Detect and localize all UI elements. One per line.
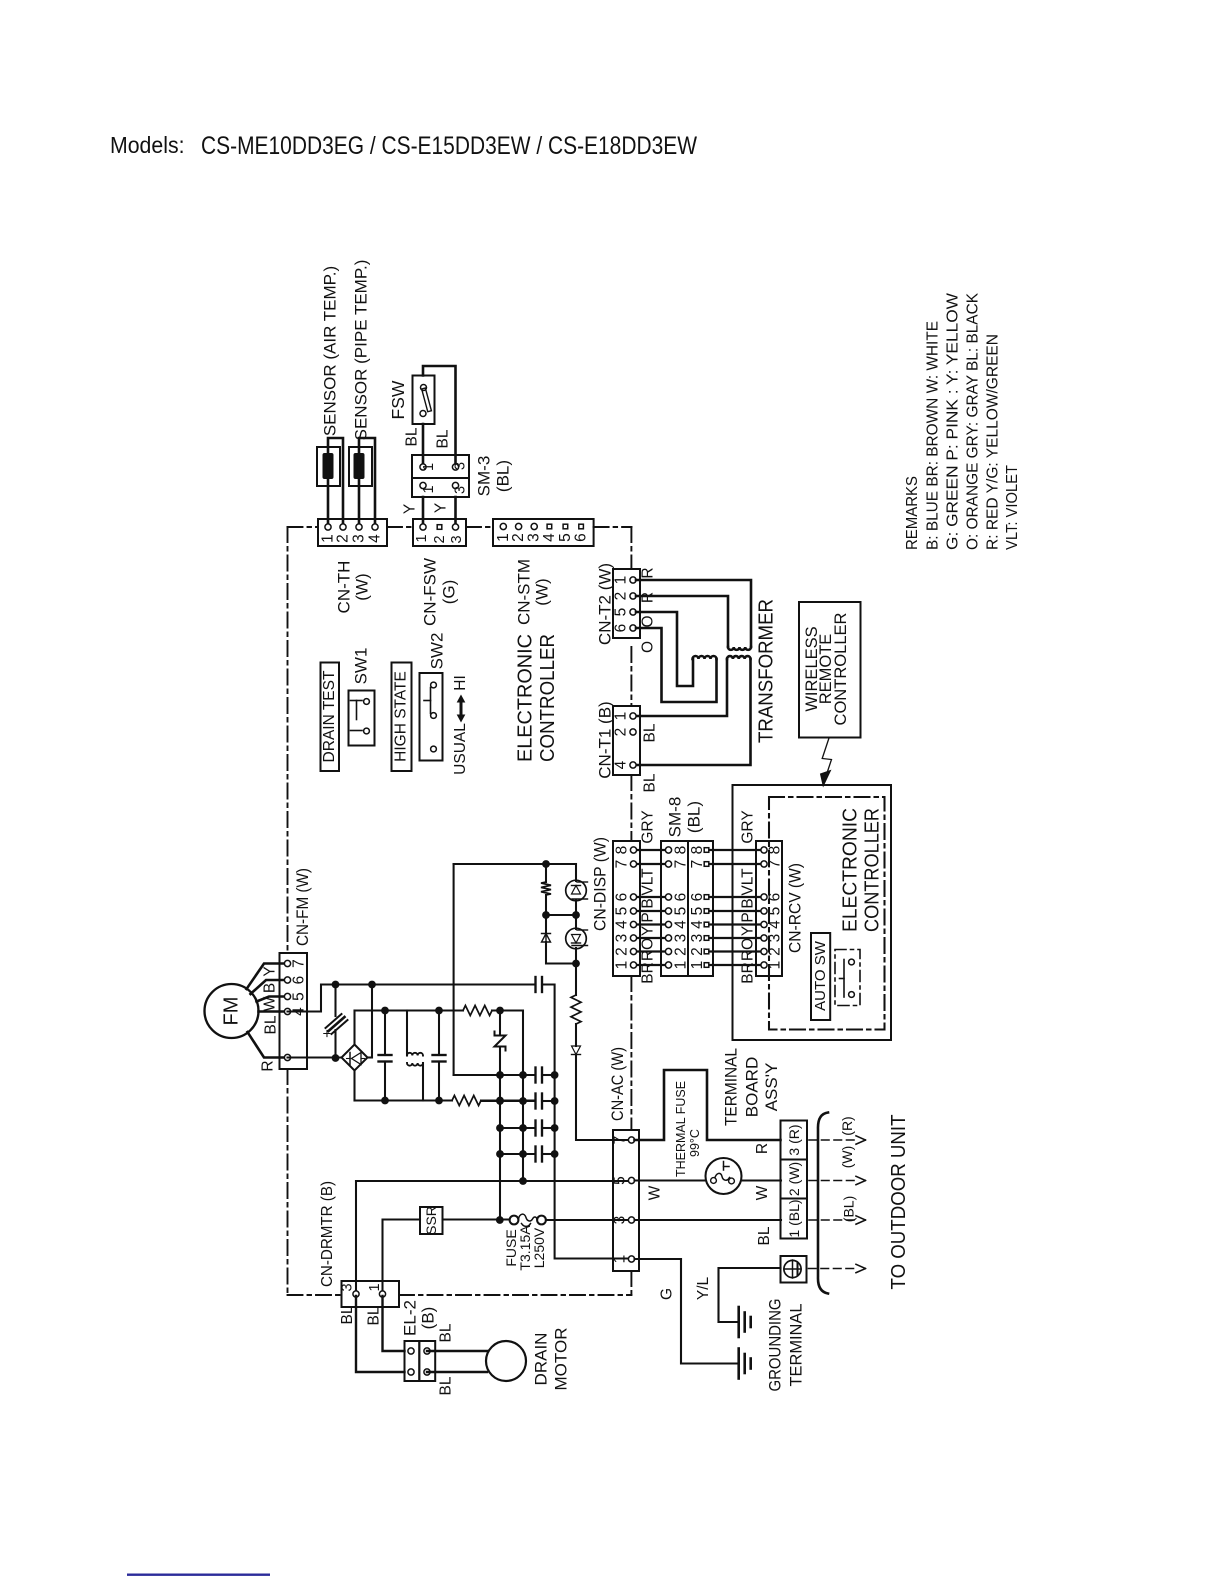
svg-text:SSR: SSR (423, 1206, 439, 1235)
svg-text:CN-RCV (W): CN-RCV (W) (786, 863, 805, 953)
svg-text:THERMAL FUSE: THERMAL FUSE (674, 1081, 688, 1177)
svg-text:DRAIN TEST: DRAIN TEST (321, 670, 338, 762)
svg-text:O: O (740, 938, 757, 950)
svg-text:6: 6 (291, 976, 308, 985)
svg-text:(W): (W) (839, 1146, 855, 1169)
svg-text:CN-DISP (W): CN-DISP (W) (591, 837, 610, 931)
svg-text:O: ORANGE GRY: GRAY BL: BLACK: O: ORANGE GRY: GRAY BL: BLACK (965, 293, 982, 550)
svg-text:BR: BR (640, 962, 657, 984)
svg-text:(BL): (BL) (494, 460, 513, 492)
svg-text:3: 3 (767, 934, 784, 943)
svg-text:TERMINAL: TERMINAL (787, 1304, 806, 1387)
svg-text:BR: BR (740, 962, 757, 984)
svg-text:ELECTRONIC: ELECTRONIC (514, 634, 537, 762)
svg-text:2: 2 (432, 535, 448, 543)
svg-text:P: P (640, 912, 657, 922)
svg-text:GRY: GRY (740, 810, 757, 843)
svg-text:HI: HI (452, 675, 469, 691)
svg-text:BL: BL (642, 773, 659, 792)
svg-text:2 (W): 2 (W) (786, 1162, 802, 1196)
svg-text:5: 5 (612, 1176, 629, 1185)
svg-text:6: 6 (613, 624, 630, 633)
svg-text:R: R (640, 950, 657, 961)
svg-text:1: 1 (421, 463, 437, 471)
svg-text:HIGH STATE: HIGH STATE (393, 671, 410, 762)
svg-text:5: 5 (767, 907, 784, 916)
svg-text:CN-STM: CN-STM (515, 559, 534, 625)
svg-text:(R): (R) (839, 1116, 855, 1135)
svg-text:O: O (640, 615, 657, 627)
svg-text:6: 6 (573, 533, 590, 542)
svg-text:R: R (640, 567, 657, 578)
svg-text:(G): (G) (440, 580, 459, 605)
svg-text:CS-ME10DD3EG / CS-E15DD3EW / C: CS-ME10DD3EG / CS-E15DD3EW / CS-E18DD3EW (201, 132, 697, 160)
svg-text:G: G (659, 1288, 676, 1300)
svg-text:CN-TH: CN-TH (335, 561, 354, 614)
svg-text:2: 2 (335, 534, 352, 543)
svg-text:GROUNDING: GROUNDING (766, 1299, 785, 1392)
svg-text:SM-8: SM-8 (666, 797, 685, 838)
svg-text:(W): (W) (353, 573, 372, 600)
svg-text:BL: BL (642, 723, 659, 742)
svg-text:P: P (740, 912, 757, 922)
svg-text:CN-AC (W): CN-AC (W) (608, 1047, 627, 1121)
svg-text:7: 7 (291, 959, 308, 968)
svg-text:4: 4 (613, 760, 630, 769)
svg-text:SW1: SW1 (352, 648, 371, 685)
svg-text:2: 2 (767, 947, 784, 956)
svg-text:7: 7 (673, 860, 690, 869)
svg-text:CN-DRMTR (B): CN-DRMTR (B) (319, 1181, 336, 1287)
svg-text:SM-3: SM-3 (475, 456, 494, 497)
svg-text:8: 8 (673, 846, 690, 855)
svg-text:2: 2 (614, 947, 631, 956)
svg-text:3 (R): 3 (R) (786, 1124, 802, 1155)
svg-text:R: R (740, 950, 757, 961)
svg-text:6: 6 (614, 893, 631, 902)
svg-text:O: O (640, 641, 657, 653)
svg-text:VLT: VLT (640, 868, 657, 896)
svg-text:2: 2 (689, 947, 706, 956)
svg-text:TERMINAL: TERMINAL (722, 1048, 741, 1126)
svg-text:6: 6 (673, 893, 690, 902)
svg-text:6: 6 (767, 893, 784, 902)
svg-text:(B): (B) (419, 1307, 438, 1330)
svg-text:USUAL: USUAL (452, 723, 469, 775)
svg-text:8: 8 (614, 846, 631, 855)
svg-text:3: 3 (453, 486, 469, 494)
svg-text:G: GREEN P: PINK : Y: YELLOW: G: GREEN P: PINK : Y: YELLOW (945, 292, 962, 550)
svg-text:7: 7 (614, 860, 631, 869)
svg-text:1: 1 (367, 1283, 383, 1291)
svg-text:CONTROLLER: CONTROLLER (861, 808, 884, 932)
svg-text:1: 1 (689, 961, 706, 970)
svg-text:Y: Y (740, 926, 757, 936)
svg-text:CN-FM (W): CN-FM (W) (293, 868, 312, 946)
svg-text:1: 1 (614, 961, 631, 970)
svg-text:SW2: SW2 (428, 633, 447, 670)
svg-text:4: 4 (367, 534, 384, 543)
svg-text:3: 3 (453, 462, 469, 470)
svg-text:TO OUTDOOR UNIT: TO OUTDOOR UNIT (887, 1114, 910, 1289)
svg-text:2: 2 (613, 592, 630, 601)
svg-text:5: 5 (614, 907, 631, 916)
svg-text:B: B (262, 983, 279, 993)
svg-text:5: 5 (613, 608, 630, 617)
svg-text:Y: Y (640, 926, 657, 936)
svg-text:99°C: 99°C (688, 1129, 702, 1157)
svg-text:1: 1 (613, 712, 630, 721)
svg-text:5: 5 (689, 907, 706, 916)
svg-text:Y: Y (433, 503, 450, 513)
svg-text:CN-T2 (W): CN-T2 (W) (596, 563, 615, 645)
svg-text:1: 1 (613, 576, 630, 585)
svg-text:4: 4 (541, 533, 558, 542)
svg-text:BL: BL (438, 1323, 455, 1342)
svg-text:B: BLUE BR: BROWN W: WHITE: B: BLUE BR: BROWN W: WHITE (925, 321, 942, 550)
svg-text:7: 7 (612, 1136, 629, 1145)
svg-text:2: 2 (510, 533, 527, 542)
svg-text:W: W (262, 996, 279, 1011)
svg-text:BOARD: BOARD (743, 1057, 762, 1117)
svg-text:VLT: VLT (740, 868, 757, 896)
svg-text:BL: BL (438, 1376, 455, 1395)
svg-text:3: 3 (340, 1283, 356, 1291)
svg-text:L250V: L250V (531, 1227, 547, 1268)
svg-text:W: W (754, 1185, 771, 1200)
svg-text:BL: BL (756, 1226, 773, 1245)
svg-text:7: 7 (689, 860, 706, 869)
svg-text:5: 5 (291, 992, 308, 1001)
svg-text:8: 8 (689, 846, 706, 855)
svg-text:3: 3 (673, 934, 690, 943)
svg-text:1: 1 (612, 1255, 629, 1264)
svg-text:4: 4 (614, 920, 631, 929)
svg-text:BL: BL (435, 429, 452, 448)
svg-text:Y: Y (262, 966, 279, 976)
svg-text:1: 1 (767, 961, 784, 970)
svg-text:BL: BL (339, 1305, 356, 1324)
svg-text:R: R (640, 592, 657, 603)
svg-text:DRAIN: DRAIN (532, 1333, 551, 1386)
svg-text:CONTROLLER: CONTROLLER (536, 634, 559, 762)
svg-text:REMARKS: REMARKS (904, 476, 921, 550)
svg-text:R: R (754, 1143, 771, 1154)
svg-text:(W): (W) (533, 578, 552, 605)
svg-text:BL: BL (263, 1015, 280, 1034)
svg-text:SENSOR (AIR TEMP.): SENSOR (AIR TEMP.) (321, 266, 340, 436)
svg-text:5: 5 (673, 907, 690, 916)
svg-text:AUTO SW: AUTO SW (812, 940, 829, 1011)
svg-text:Y/L: Y/L (695, 1276, 712, 1300)
svg-text:EL-2: EL-2 (401, 1300, 420, 1336)
svg-text:ELECTRONIC: ELECTRONIC (839, 808, 862, 932)
svg-text:4: 4 (689, 920, 706, 929)
svg-text:1 (BL): 1 (BL) (786, 1199, 802, 1237)
svg-text:CN-FSW: CN-FSW (421, 558, 440, 626)
svg-text:3: 3 (689, 934, 706, 943)
svg-text:GRY: GRY (640, 810, 657, 843)
svg-text:3: 3 (351, 534, 368, 543)
svg-text:FSW: FSW (388, 380, 408, 419)
svg-text:(BL): (BL) (685, 801, 704, 833)
svg-text:CN-T1 (B): CN-T1 (B) (596, 701, 615, 778)
svg-text:VLT: VIOLET: VLT: VIOLET (1004, 465, 1021, 550)
svg-text:1: 1 (414, 534, 430, 542)
svg-text:8: 8 (767, 846, 784, 855)
svg-text:SENSOR (PIPE TEMP.): SENSOR (PIPE TEMP.) (352, 260, 371, 441)
svg-text:3: 3 (449, 535, 465, 543)
svg-text:+: + (319, 1029, 336, 1038)
svg-text:MOTOR: MOTOR (552, 1328, 571, 1391)
svg-text:O: O (640, 938, 657, 950)
svg-text:(BL): (BL) (841, 1196, 857, 1222)
svg-text:5: 5 (557, 533, 574, 542)
svg-text:4: 4 (673, 920, 690, 929)
svg-text:TRANSFORMER: TRANSFORMER (755, 599, 778, 743)
svg-text:Models:: Models: (110, 132, 185, 158)
svg-text:R: R (260, 1060, 277, 1071)
svg-text:1: 1 (673, 961, 690, 970)
svg-text:R: RED Y/G: YELLOW/GREEN: R: RED Y/G: YELLOW/GREEN (985, 334, 1002, 550)
svg-text:BL: BL (366, 1306, 383, 1325)
svg-text:3: 3 (614, 934, 631, 943)
svg-text:B: B (740, 898, 757, 908)
svg-text:6: 6 (689, 893, 706, 902)
svg-text:CONTROLLER: CONTROLLER (832, 612, 850, 725)
svg-text:FM: FM (221, 997, 243, 1026)
svg-text:Y: Y (402, 504, 419, 514)
svg-text:W: W (647, 1185, 664, 1200)
svg-text:2: 2 (673, 947, 690, 956)
svg-text:B: B (640, 898, 657, 908)
svg-text:BL: BL (404, 427, 421, 446)
svg-text:1: 1 (421, 485, 437, 493)
svg-text:3: 3 (612, 1216, 629, 1225)
svg-text:4: 4 (767, 920, 784, 929)
svg-text:2: 2 (613, 728, 630, 737)
svg-text:ASS'Y: ASS'Y (762, 1063, 781, 1112)
svg-text:7: 7 (767, 860, 784, 869)
